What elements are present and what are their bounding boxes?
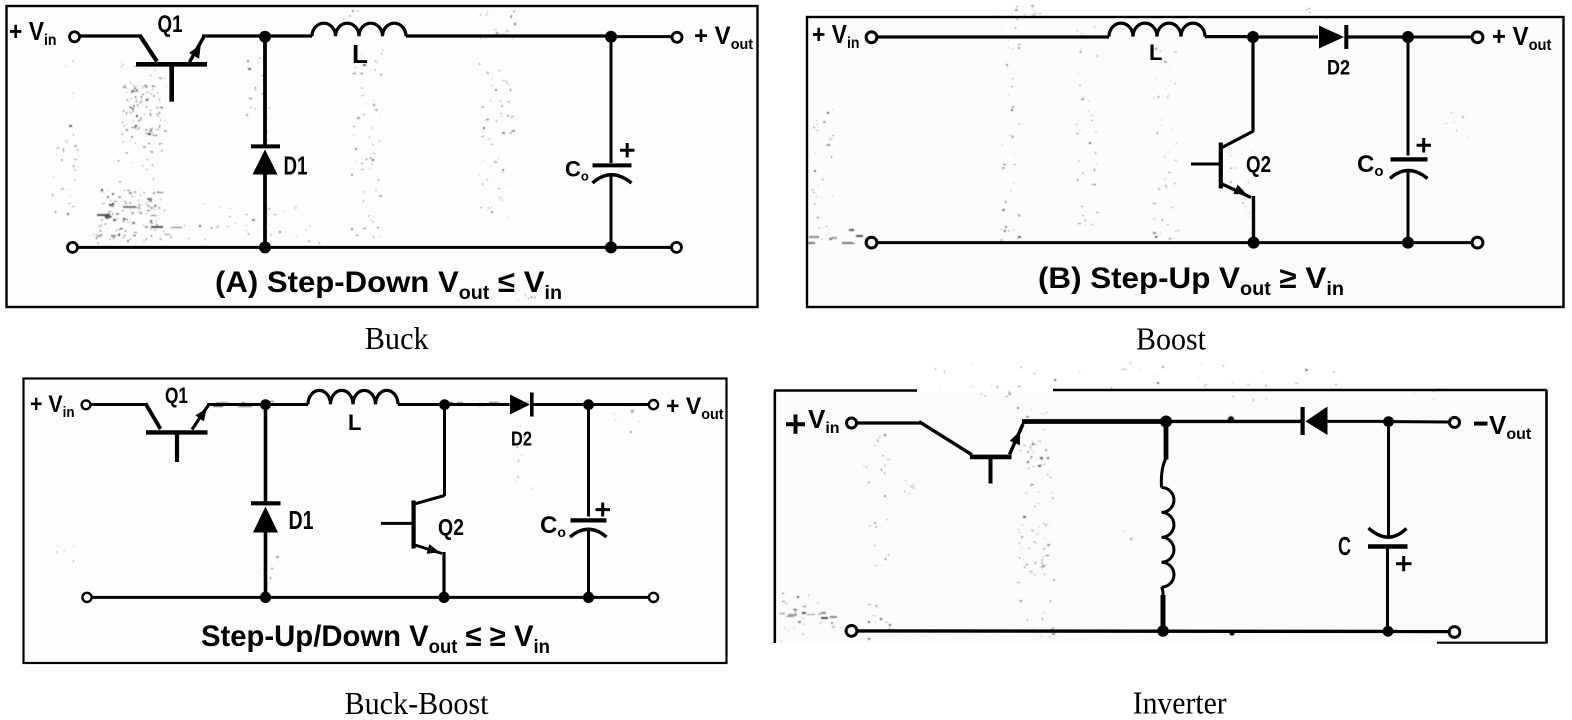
inductor L (B)	[1109, 23, 1205, 37]
capacitor Co (B)	[1390, 42, 1431, 242]
terminal +Vin (C)	[82, 400, 91, 409]
diode D (D)	[1303, 407, 1384, 436]
ground rail (A)	[77, 246, 672, 249]
terminal rail left (B)	[866, 237, 877, 248]
svg-text:Boost: Boost	[1136, 321, 1206, 357]
svg-text:(A) Step-Down Vout ≤ Vin: (A) Step-Down Vout ≤ Vin	[215, 266, 562, 304]
wire node to Vout (B)	[1408, 36, 1472, 39]
svg-text:Q1: Q1	[158, 11, 183, 38]
svg-text:Step-Up/Down Vout ≤ ≥ Vin: Step-Up/Down Vout ≤ ≥ Vin	[201, 620, 550, 658]
wire node1 to inductor (C)	[266, 403, 309, 406]
wire node to Vout (A)	[611, 35, 672, 38]
node switch (A)	[259, 31, 271, 43]
terminal +Vin (D)	[847, 418, 857, 428]
wire inductor to switch node (B)	[1205, 35, 1248, 38]
panel D frame	[774, 390, 1547, 644]
wire junction to diode (D)	[1166, 420, 1301, 423]
svg-text:D2: D2	[1327, 57, 1350, 80]
svg-text:L: L	[352, 39, 368, 69]
terminal +Vin (A)	[70, 32, 80, 42]
terminal rail right (B)	[1472, 237, 1483, 248]
diode D2 (B)	[1319, 25, 1403, 49]
terminal +Vout (A)	[672, 32, 682, 42]
node rail Co (C)	[583, 592, 594, 603]
svg-text:L: L	[1149, 40, 1162, 65]
svg-text:D1: D1	[284, 151, 308, 181]
transistor Q1 (A)	[136, 35, 207, 102]
svg-text:L: L	[348, 410, 361, 435]
node rail Co (A)	[605, 241, 617, 253]
node output (C)	[583, 399, 594, 410]
svg-text:C: C	[1338, 531, 1351, 561]
transistor Q2 (C)	[381, 410, 445, 597]
node junction (D)	[1160, 416, 1172, 428]
wire node3 to Vout (C)	[589, 403, 649, 406]
wire node to Vout (D)	[1389, 420, 1450, 423]
svg-text:Q1: Q1	[165, 383, 188, 408]
inductor L (A)	[312, 23, 406, 36]
node switch (C)	[260, 399, 271, 410]
node output (D)	[1383, 416, 1394, 427]
panel B frame	[807, 17, 1564, 307]
terminal rail left (D)	[846, 626, 857, 637]
capacitor Co (C)	[570, 410, 610, 597]
terminal +Vout (B)	[1472, 32, 1483, 43]
diode D2 (C)	[510, 393, 584, 417]
transistor Q (D)	[919, 422, 1023, 484]
node rail D1 (A)	[259, 241, 271, 253]
wire Q to junction (D)	[1022, 419, 1166, 424]
node inductor-D2 (C)	[439, 399, 450, 410]
wire node to inductor (A)	[265, 34, 312, 37]
node rail C (D)	[1383, 626, 1394, 637]
wire Vin to Q1 (C)	[91, 403, 147, 406]
wire inductor to output node (A)	[406, 34, 611, 37]
node rail Co (B)	[1402, 237, 1414, 249]
ground rail (B)	[877, 241, 1472, 244]
terminal +Vout (C)	[649, 400, 658, 409]
terminal rail right (C)	[649, 593, 658, 602]
transistor Q2 (B)	[1191, 42, 1254, 242]
node rail L (D)	[1157, 625, 1169, 637]
panel C frame	[24, 379, 727, 664]
wire Vin to Q1 (A)	[80, 34, 141, 37]
wire Vin to inductor (B)	[877, 35, 1109, 38]
inductor L (D)	[1161, 422, 1174, 632]
wire Vin to Q (D)	[857, 421, 921, 424]
label -Vout (D)	[1474, 410, 1532, 443]
terminal rail right (D)	[1449, 627, 1460, 638]
node switch (B)	[1247, 31, 1259, 43]
capacitor Co (A)	[593, 40, 635, 247]
wire node to D2 (B)	[1253, 35, 1318, 38]
wire Q1 to switch node (A)	[202, 34, 260, 37]
wire node2 to D2 (C)	[445, 403, 510, 406]
capacitor C (D)	[1368, 427, 1412, 631]
terminal rail left (A)	[68, 242, 78, 252]
svg-text:Buck: Buck	[365, 320, 429, 356]
inductor L (C)	[308, 390, 398, 404]
svg-text:Buck-Boost: Buck-Boost	[345, 685, 489, 720]
node output (B)	[1402, 31, 1414, 43]
svg-text:Q2: Q2	[1246, 151, 1271, 177]
terminal rail left (C)	[82, 593, 91, 602]
diode D1 (C)	[251, 410, 281, 597]
wire Q1 to node1 (C)	[207, 403, 261, 406]
svg-text:Q2: Q2	[438, 514, 464, 540]
ground rail (C)	[92, 596, 648, 599]
svg-text:D1: D1	[289, 505, 314, 535]
diode D1 (A)	[251, 40, 280, 247]
node rail Q2 (C)	[438, 592, 449, 603]
label +Vin (D)	[786, 404, 840, 437]
node rail Q2 (B)	[1248, 237, 1260, 249]
node rail D1 (C)	[260, 592, 271, 603]
wire inductor to node2 (C)	[398, 403, 440, 406]
terminal rail right (A)	[672, 242, 682, 252]
terminal -Vout (D)	[1450, 417, 1460, 427]
svg-text:(B) Step-Up Vout ≥ Vin: (B) Step-Up Vout ≥ Vin	[1038, 262, 1344, 300]
node output (A)	[605, 31, 617, 43]
svg-text:D2: D2	[511, 429, 532, 451]
transistor Q1 (C)	[146, 404, 209, 463]
svg-text:Inverter: Inverter	[1133, 685, 1227, 720]
panel A frame	[7, 6, 758, 307]
terminal +Vin (B)	[866, 32, 877, 43]
ground rail (D)	[857, 629, 1449, 633]
